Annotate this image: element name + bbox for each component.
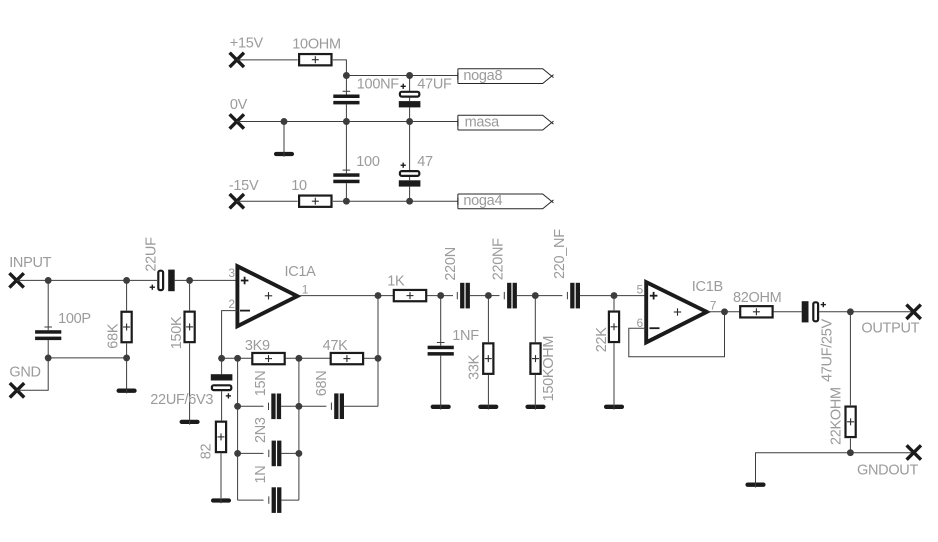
svg-text:10: 10 (291, 178, 307, 194)
capacitor 1N (238, 487, 299, 513)
svg-text:3: 3 (228, 266, 235, 280)
junction 2N3 left (234, 450, 241, 457)
svg-text:7: 7 (710, 298, 717, 312)
ground output (748, 483, 764, 488)
net flag noga4 (458, 193, 554, 209)
port INPUT (9, 273, 23, 287)
resistor 22K leads (613, 296, 615, 311)
capacitor 220NF (488, 283, 535, 309)
wire IC1B feedback (629, 312, 725, 357)
junction 22UF / 150K (186, 277, 193, 284)
svg-text:47UF/25V: 47UF/25V (820, 318, 836, 382)
resistor 33K (483, 343, 493, 374)
resistor 68K leads (126, 280, 128, 310)
junction 2N3 right (295, 450, 302, 457)
port OUTPUT (906, 305, 920, 319)
resistor 22KOHM leads (849, 312, 851, 405)
junction IC1B output (721, 308, 728, 315)
junction 47K / rail (375, 355, 382, 362)
junction 33K (485, 292, 492, 299)
capacitor 47UF (399, 76, 421, 122)
svg-text:220_NF: 220_NF (552, 229, 568, 279)
svg-text:47K: 47K (323, 338, 349, 354)
resistor 33K leads (487, 296, 489, 343)
ground 1NF (433, 405, 449, 410)
svg-text:masa: masa (465, 114, 500, 130)
svg-text:+15V: +15V (230, 36, 264, 52)
capacitor 1NF (428, 296, 454, 405)
wire output rail vertical (377, 296, 379, 407)
svg-text:150KOHM: 150KOHM (541, 336, 557, 402)
svg-text:82OHM: 82OHM (733, 290, 781, 306)
svg-text:OUTPUT: OUTPUT (861, 320, 919, 336)
svg-text:1K: 1K (387, 274, 405, 290)
resistor 3K9 (252, 353, 284, 364)
wire 1K to 220N (427, 295, 453, 297)
capacitor 100P (35, 280, 61, 358)
port 0V (230, 114, 244, 128)
svg-text:GND: GND (9, 365, 40, 381)
resistor 47K (331, 353, 363, 364)
port GND (10, 383, 24, 397)
capacitor 47 (399, 122, 421, 202)
wire -15V to R 10 (237, 200, 298, 202)
svg-text:10OHM: 10OHM (292, 36, 340, 52)
junction 15N left (234, 403, 241, 410)
capacitor 47UF/25V (802, 301, 851, 322)
svg-text:2N3: 2N3 (253, 417, 269, 443)
svg-text:1: 1 (302, 283, 309, 297)
junction noga4 / cap 47 (406, 198, 413, 205)
wire INPUT line (17, 279, 157, 281)
svg-text:22K: 22K (594, 327, 610, 353)
junction 150KOHM (532, 292, 539, 299)
capacitor 220N (457, 283, 488, 309)
svg-text:68K: 68K (105, 323, 121, 349)
port GNDOUT (907, 445, 921, 459)
wire 0V line (237, 121, 458, 123)
junction 68K bottom (123, 354, 130, 361)
junction 100P / GND (45, 354, 52, 361)
svg-text:220N: 220N (443, 247, 459, 280)
junction 0V / caps 100NF-100 (343, 118, 350, 125)
wire 3K9 to 47K (285, 357, 330, 359)
svg-text:-15V: -15V (229, 178, 259, 194)
junction output node (847, 308, 854, 315)
resistor 10 (299, 196, 331, 207)
svg-text:33K: 33K (467, 354, 483, 380)
net flag noga8 (458, 68, 554, 84)
capacitor 15N (238, 394, 299, 420)
svg-text:noga8: noga8 (463, 68, 502, 84)
junction feedback rail B top (295, 355, 302, 362)
ground 68K (119, 389, 135, 394)
wire 0V to ground (283, 122, 285, 153)
svg-text:100P: 100P (58, 311, 91, 327)
ground 82 (213, 499, 229, 504)
junction output / feedback rail (375, 292, 382, 299)
svg-text:82: 82 (198, 444, 214, 460)
svg-text:5: 5 (637, 283, 644, 297)
svg-text:INPUT: INPUT (9, 255, 51, 271)
ground 150K (182, 420, 198, 425)
wire feedback row left (222, 357, 252, 359)
resistor 1K (394, 290, 426, 301)
wire to GNDOUT port (850, 452, 913, 454)
junction feedback rail A top (234, 355, 241, 362)
net flag masa (458, 114, 554, 130)
wire to IC1B pin5 (614, 295, 646, 297)
svg-text:IC1B: IC1B (692, 279, 723, 295)
svg-text:1NF: 1NF (452, 328, 479, 344)
junction 0V / ground (281, 118, 288, 125)
capacitor 100 (333, 122, 359, 202)
wire 82 to ground (220, 453, 222, 498)
svg-text:150K: 150K (169, 316, 185, 349)
op-amp IC1A (237, 266, 297, 326)
svg-text:GNDOUT: GNDOUT (857, 463, 918, 479)
svg-text:3K9: 3K9 (245, 338, 270, 354)
resistor 150K leads (189, 280, 191, 310)
svg-text:68N: 68N (314, 371, 330, 397)
ground power (276, 152, 292, 157)
resistor 82OHM (740, 306, 772, 317)
wire node noga4 horizontal (333, 200, 458, 202)
ground 22K (606, 405, 622, 410)
resistor 150KOHM leads (534, 296, 536, 343)
port +15V (230, 53, 244, 67)
wire 22KOHM to ground (756, 453, 851, 483)
svg-text:47: 47 (417, 154, 433, 170)
wire +15V to R 10OHM (237, 59, 298, 61)
svg-text:100NF: 100NF (357, 77, 399, 93)
wire pin2 to feedback node (222, 311, 238, 359)
capacitor 22UF/6V3 (211, 358, 233, 420)
svg-text:22UF: 22UF (144, 237, 160, 272)
resistor 22K (609, 312, 619, 343)
wire input bottom row (48, 357, 126, 359)
junction noga8 / 100NF (343, 72, 350, 79)
svg-text:1N: 1N (253, 466, 269, 484)
wire IC1B output (708, 311, 740, 313)
svg-text:220NF: 220NF (491, 238, 507, 280)
ground 33K (480, 405, 496, 410)
junction 22KOHM bottom (847, 449, 854, 456)
capacitor 100NF (333, 76, 359, 122)
capacitor 22UF (150, 270, 238, 292)
junction noga4 / cap 100 (343, 198, 350, 205)
ground 150KOHM (528, 405, 544, 410)
svg-text:47UF: 47UF (417, 77, 452, 93)
capacitor 220_NF (535, 283, 614, 309)
capacitor 2N3 (238, 441, 299, 467)
wire feedback rail B (298, 358, 300, 500)
resistor 150KOHM (530, 343, 540, 374)
junction input / 100P (45, 277, 52, 284)
junction input / 68K (123, 277, 130, 284)
junction 0V / caps 47UF-47 (406, 118, 413, 125)
svg-text:noga4: noga4 (463, 193, 502, 209)
junction 1NF (437, 292, 444, 299)
wire GND port riser (17, 358, 48, 390)
wire feedback rail A (237, 358, 239, 500)
svg-text:100: 100 (356, 154, 380, 170)
svg-text:2: 2 (228, 297, 235, 311)
junction 15N right (295, 403, 302, 410)
junction 22K (611, 292, 618, 299)
port -15V (230, 194, 244, 208)
wire R 10OHM to node noga8 (333, 60, 347, 76)
svg-text:15N: 15N (253, 371, 269, 397)
wire to OUTPUT port (850, 311, 913, 313)
op-amp IC1B (646, 282, 707, 342)
svg-text:0V: 0V (230, 97, 248, 113)
resistor 82 (216, 422, 226, 453)
capacitor 68N (299, 393, 378, 419)
junction noga8 / 47UF (406, 72, 413, 79)
wire node noga8 horizontal (346, 75, 458, 77)
svg-text:22UF/6V3: 22UF/6V3 (150, 392, 213, 408)
wire 47K to output rail (364, 357, 378, 359)
resistor 10OHM (299, 54, 331, 65)
resistor 22KOHM (846, 407, 856, 438)
svg-text:IC1A: IC1A (285, 264, 317, 280)
wire 82OHM to 47UF/25V (773, 311, 801, 313)
resistor 150K (185, 312, 195, 343)
wire IC1A output (300, 295, 394, 297)
svg-text:22KOHM: 22KOHM (829, 387, 845, 445)
junction pin2 node (218, 355, 225, 362)
resistor 68K (122, 312, 132, 343)
